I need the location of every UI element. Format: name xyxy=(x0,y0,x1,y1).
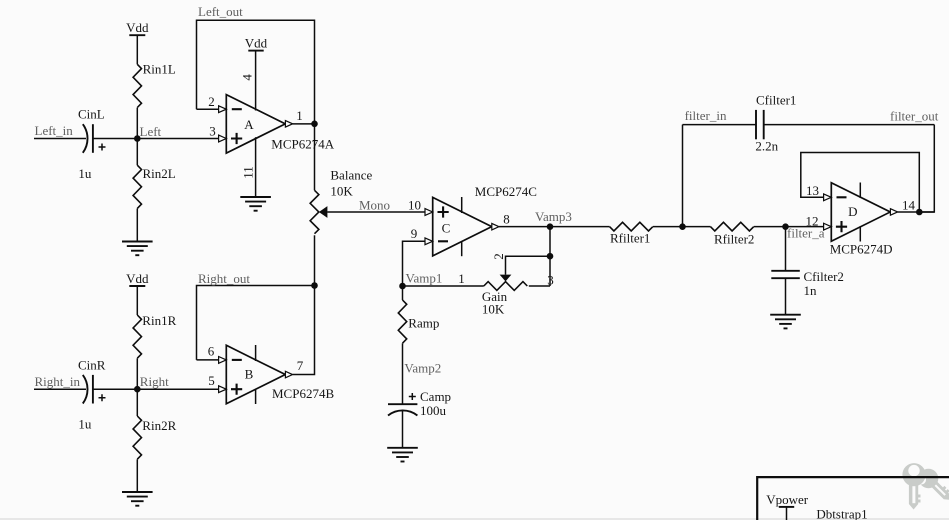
resistor Rin1L xyxy=(133,62,176,108)
svg-text:Vdd: Vdd xyxy=(126,271,149,286)
node filter_a xyxy=(782,223,825,240)
pin 5 arrow xyxy=(219,386,227,393)
wire C output to Vamp3 xyxy=(499,226,550,228)
label Dbtstrap1 xyxy=(816,507,867,520)
wire CinR to node Right xyxy=(93,388,137,390)
ground (left divider) xyxy=(122,242,153,256)
node Left xyxy=(134,124,162,142)
capacitor Camp xyxy=(388,393,417,416)
op-amp U1A xyxy=(226,95,285,154)
wire Gain wiper (pin 2) xyxy=(506,256,551,274)
pin 1 output arrow xyxy=(285,121,292,128)
svg-text:Left: Left xyxy=(140,124,162,139)
pin 11 label xyxy=(241,166,256,179)
label Cfilter1 xyxy=(756,92,796,107)
pin 13 arrow xyxy=(824,194,832,201)
svg-text:Rfilter2: Rfilter2 xyxy=(714,232,754,247)
pin 7 output arrow xyxy=(285,371,292,378)
svg-text:2.2n: 2.2n xyxy=(755,139,778,154)
svg-text:MCP6274C: MCP6274C xyxy=(475,184,537,199)
net label Right_in xyxy=(35,374,81,389)
svg-text:A: A xyxy=(244,117,254,132)
pin 10 label xyxy=(408,198,421,213)
node B output / Right_out xyxy=(311,282,318,289)
pin 3 arrow xyxy=(219,135,227,142)
wire Balance to node xyxy=(314,235,316,285)
node Vamp1 xyxy=(399,271,442,290)
wire Vamp3 to Gain pin 3 xyxy=(549,227,551,286)
svg-text:Balance: Balance xyxy=(330,167,372,182)
wire Left_in input xyxy=(34,138,86,140)
pin 13 label xyxy=(806,183,819,198)
wire pin 9 xyxy=(403,241,426,286)
op-amp U1D xyxy=(831,183,890,242)
potentiometer Gain 10K xyxy=(484,275,528,291)
svg-text:MCP6274B: MCP6274B xyxy=(272,386,334,401)
svg-text:B: B xyxy=(245,366,254,381)
svg-text:10K: 10K xyxy=(482,302,505,317)
node filter_in xyxy=(679,223,686,230)
svg-text:Left_in: Left_in xyxy=(35,123,74,138)
box Dbtstrap1 xyxy=(757,477,949,520)
pin 2 label xyxy=(208,94,215,109)
wire filter_in to Cfilter1 xyxy=(683,124,757,126)
svg-text:8: 8 xyxy=(503,212,510,227)
svg-text:Vdd: Vdd xyxy=(126,20,149,35)
svg-text:1u: 1u xyxy=(78,166,92,181)
svg-text:12: 12 xyxy=(806,214,819,229)
svg-text:MCP6274A: MCP6274A xyxy=(271,137,334,152)
value 1u xyxy=(78,417,92,432)
svg-text:filter_out: filter_out xyxy=(890,109,939,124)
power Vpower xyxy=(766,492,809,520)
node A output xyxy=(311,121,318,128)
net label Right_out xyxy=(198,271,250,286)
label MCP6274C xyxy=(475,184,537,199)
svg-text:Ramp: Ramp xyxy=(408,316,439,331)
power pin stub (op-amp C top) xyxy=(461,197,463,213)
wire A output to Balance xyxy=(314,124,316,190)
pin 1 label (Gain) xyxy=(458,271,465,286)
net label filter_out xyxy=(890,109,939,124)
svg-text:4: 4 xyxy=(240,74,255,81)
value 10K (Balance) xyxy=(330,184,353,199)
wire filter_in vertical xyxy=(682,125,684,227)
label Gain xyxy=(482,289,508,304)
wire Ramp to Camp xyxy=(402,343,404,404)
pin 14 output arrow xyxy=(890,209,897,216)
capacitor Cfilter2 xyxy=(771,271,800,278)
svg-text:11: 11 xyxy=(241,166,256,179)
wire D output xyxy=(898,211,935,213)
net label Left_in xyxy=(35,123,74,138)
label Cfilter2 xyxy=(804,269,844,284)
svg-text:9: 9 xyxy=(411,226,418,241)
pin 8 output arrow xyxy=(492,223,499,230)
resistor Rfilter2 xyxy=(711,222,755,246)
capacitor CinR xyxy=(83,375,106,404)
svg-text:6: 6 xyxy=(208,344,215,359)
resistor Rin2L xyxy=(133,165,176,208)
wire pin 2 xyxy=(197,108,219,110)
op-amp U1C xyxy=(433,197,492,256)
net label Vamp2 xyxy=(404,361,441,376)
svg-text:1n: 1n xyxy=(804,283,818,298)
wire Vamp1 to Gain pin 1 xyxy=(403,285,484,287)
label MCP6274A xyxy=(271,137,334,152)
svg-text:3: 3 xyxy=(209,124,216,139)
wire filter_a to Cfilter2 xyxy=(785,227,787,271)
value 1n xyxy=(804,283,818,298)
svg-text:2: 2 xyxy=(491,253,506,260)
wire pin 6 xyxy=(197,359,219,361)
label Camp xyxy=(420,389,451,404)
svg-text:Rin2L: Rin2L xyxy=(143,166,176,181)
node Vamp3 xyxy=(535,209,572,230)
svg-text:13: 13 xyxy=(806,183,819,198)
wire node to Rin2L xyxy=(136,139,138,166)
label Balance xyxy=(330,167,372,182)
wire Rfilter1 to node filter_in xyxy=(653,226,683,228)
wire Cfilter1 to filter_out xyxy=(764,124,935,126)
label MCP6274B xyxy=(272,386,334,401)
svg-text:Vpower: Vpower xyxy=(766,492,809,507)
keys icon xyxy=(902,463,949,509)
node Right xyxy=(134,374,169,393)
wire node to Rin2R xyxy=(136,389,138,416)
svg-text:14: 14 xyxy=(902,198,916,213)
wire Left_out feedback loop xyxy=(197,20,315,124)
svg-text:Vamp1: Vamp1 xyxy=(406,271,443,286)
svg-text:Right_in: Right_in xyxy=(35,374,81,389)
resistor Rin2R xyxy=(133,416,176,459)
wire node Right to pin 5 xyxy=(137,388,218,390)
pin 1 label xyxy=(296,108,303,123)
svg-text:1: 1 xyxy=(458,271,465,286)
node D output xyxy=(916,209,923,216)
svg-text:Cfilter1: Cfilter1 xyxy=(756,92,796,107)
svg-text:100u: 100u xyxy=(420,403,447,418)
label MCP6274D xyxy=(830,242,893,257)
value 1u xyxy=(78,166,92,181)
svg-text:Cfilter2: Cfilter2 xyxy=(804,269,844,284)
pin 9 arrow xyxy=(425,238,433,245)
value 100u xyxy=(420,403,447,418)
wire B output xyxy=(293,286,315,375)
wire Right_out feedback loop xyxy=(197,286,315,360)
svg-text:Right: Right xyxy=(140,374,169,389)
pin 9 label xyxy=(411,226,418,241)
pin 12 arrow xyxy=(824,223,832,230)
svg-text:Rin2R: Rin2R xyxy=(142,418,176,433)
svg-text:Vamp3: Vamp3 xyxy=(535,209,572,224)
wire Rfilter2 to node filter_a xyxy=(754,226,786,228)
pin 6 arrow xyxy=(219,357,227,364)
power Vdd (left bias divider) xyxy=(126,20,149,64)
wire Right_in input xyxy=(34,388,86,390)
svg-text:Rin1L: Rin1L xyxy=(143,62,176,77)
power pin stub (op-amp C bottom) xyxy=(461,242,463,257)
value 2.2n xyxy=(755,139,778,154)
svg-text:7: 7 xyxy=(297,358,304,373)
svg-text:Dbtstrap1: Dbtstrap1 xyxy=(816,507,867,520)
power pin stub (op-amp B bottom) xyxy=(255,390,257,404)
pin 2 arrow xyxy=(219,106,227,113)
ground (op-amp A pin 11) xyxy=(240,197,271,211)
pin 2 label (Gain) xyxy=(491,253,506,260)
svg-text:D: D xyxy=(848,204,857,219)
svg-text:Mono: Mono xyxy=(359,198,390,213)
pin 10 arrow xyxy=(425,209,433,216)
resistor Rin1R xyxy=(133,313,176,358)
svg-text:CinR: CinR xyxy=(78,358,106,373)
resistor Ramp xyxy=(398,300,439,343)
wire Rin1R to node xyxy=(136,358,138,389)
wire Rin1L to node xyxy=(136,108,138,139)
svg-text:10: 10 xyxy=(408,198,421,213)
wire Rin2R to ground xyxy=(136,459,138,492)
svg-text:Right_out: Right_out xyxy=(198,271,250,286)
net label Left_out xyxy=(198,4,243,19)
net label Mono xyxy=(359,198,390,213)
label CinR xyxy=(78,358,106,373)
node (wiper junction) xyxy=(547,253,554,260)
capacitor Cfilter1 xyxy=(756,110,764,139)
power Vdd (right bias divider) xyxy=(126,271,149,315)
label CinL xyxy=(78,107,105,122)
potentiometer Balance 10K xyxy=(310,190,327,233)
power pin stub (op-amp D top) xyxy=(859,183,861,199)
svg-text:Vdd: Vdd xyxy=(245,35,268,50)
wire Vamp1 to Ramp xyxy=(402,286,404,300)
wire Gain pin 3 xyxy=(529,285,550,287)
wire CinL to node Left xyxy=(93,138,137,140)
wire Camp to ground xyxy=(402,410,404,448)
svg-text:1u: 1u xyxy=(78,417,92,432)
pin 6 label xyxy=(208,344,215,359)
wire Rin2L to ground xyxy=(136,209,138,242)
power pin stub (op-amp B top) xyxy=(255,345,257,361)
wire Mono (wiper to pin 10) xyxy=(327,211,425,213)
op-amp U1B xyxy=(226,345,285,404)
capacitor CinL xyxy=(83,124,106,153)
pin 7 label xyxy=(297,358,304,373)
pin 11 wire xyxy=(255,137,257,197)
pin 4 label xyxy=(240,74,255,81)
ground (Cfilter2) xyxy=(770,315,801,329)
power Vdd (op-amp A pin 4) xyxy=(245,35,268,110)
pin 8 label xyxy=(503,212,510,227)
pin 3 label xyxy=(209,124,216,139)
pin 12 label xyxy=(806,214,819,229)
svg-text:2: 2 xyxy=(208,94,215,109)
pin 14 label xyxy=(902,198,916,213)
wire A output xyxy=(293,123,315,125)
svg-text:filter_in: filter_in xyxy=(685,108,727,123)
wire Cfilter2 to ground xyxy=(785,278,787,315)
power pin stub (op-amp D bottom) xyxy=(859,226,861,241)
net label filter_in xyxy=(685,108,727,123)
wire D feedback loop xyxy=(801,153,920,213)
svg-text:1: 1 xyxy=(296,108,303,123)
wire node Left to pin 3 xyxy=(137,138,218,140)
svg-text:Vamp2: Vamp2 xyxy=(404,361,441,376)
svg-text:10K: 10K xyxy=(330,184,353,199)
pin 5 label xyxy=(208,373,215,388)
svg-text:Left_out: Left_out xyxy=(198,4,243,19)
wire filter_a to pin 12 xyxy=(786,226,824,228)
svg-text:Camp: Camp xyxy=(420,389,451,404)
ground (right divider) xyxy=(122,492,153,506)
wire filter_out corner to D output xyxy=(919,125,934,212)
resistor Rfilter1 xyxy=(610,222,653,245)
pin 3 label (Gain) xyxy=(547,273,554,288)
svg-text:Rfilter1: Rfilter1 xyxy=(610,231,650,246)
svg-text:CinL: CinL xyxy=(78,107,105,122)
svg-text:MCP6274D: MCP6274D xyxy=(830,242,893,257)
svg-text:C: C xyxy=(442,220,451,235)
svg-text:Rin1R: Rin1R xyxy=(142,313,176,328)
wire filter_in to Rfilter2 xyxy=(683,226,711,228)
value 10K (Gain) xyxy=(482,302,505,317)
wire Vamp3 to Rfilter1 xyxy=(550,226,610,228)
ground (Camp) xyxy=(387,448,418,462)
svg-text:5: 5 xyxy=(208,373,215,388)
